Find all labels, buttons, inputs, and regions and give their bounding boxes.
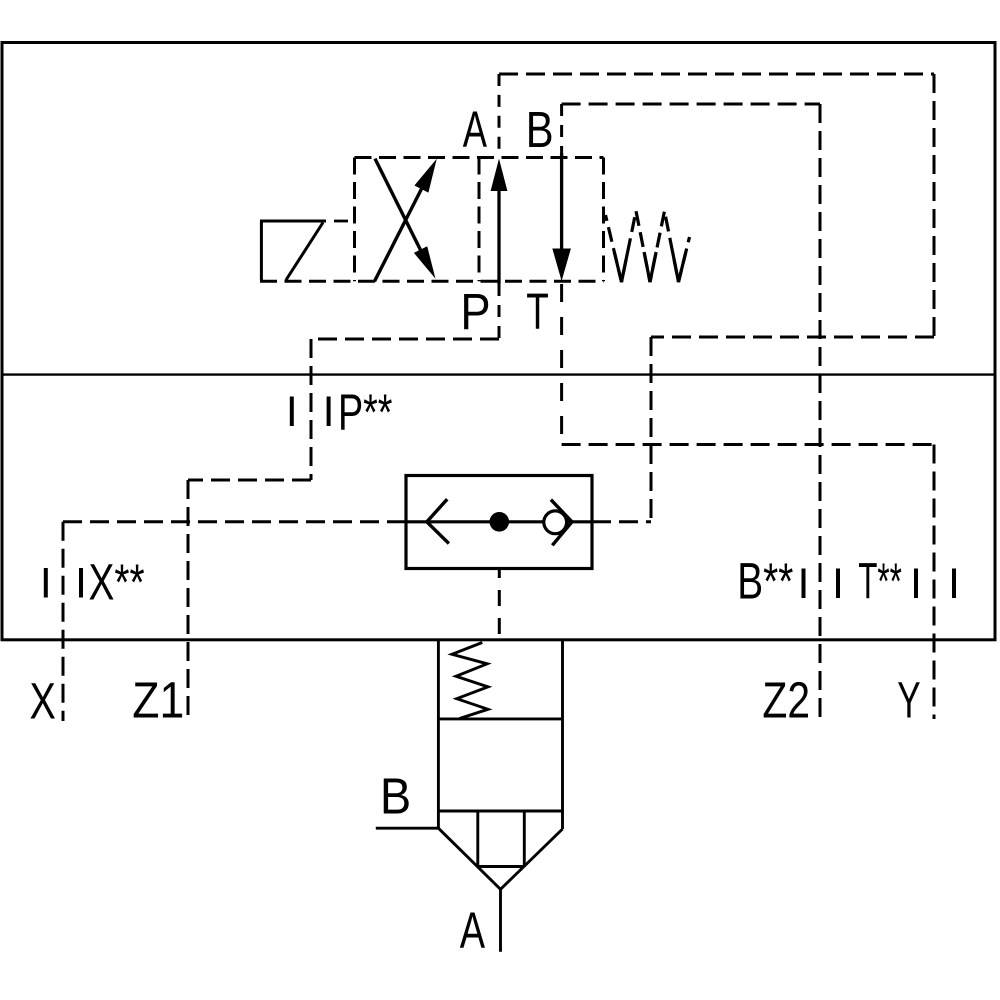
svg-text:T**: T** [858,553,902,610]
svg-text:A: A [463,102,488,158]
svg-text:Z2: Z2 [762,671,810,728]
svg-text:B: B [380,769,411,825]
svg-text:X**: X** [89,553,145,610]
svg-text:A: A [460,902,485,960]
svg-text:B: B [526,101,554,158]
svg-text:Z1: Z1 [132,673,184,729]
svg-text:T: T [526,284,549,340]
svg-text:B**: B** [737,553,793,610]
svg-text:P: P [460,284,490,341]
svg-text:P**: P** [338,383,392,441]
svg-text:X: X [30,673,56,730]
svg-text:Y: Y [897,672,920,729]
